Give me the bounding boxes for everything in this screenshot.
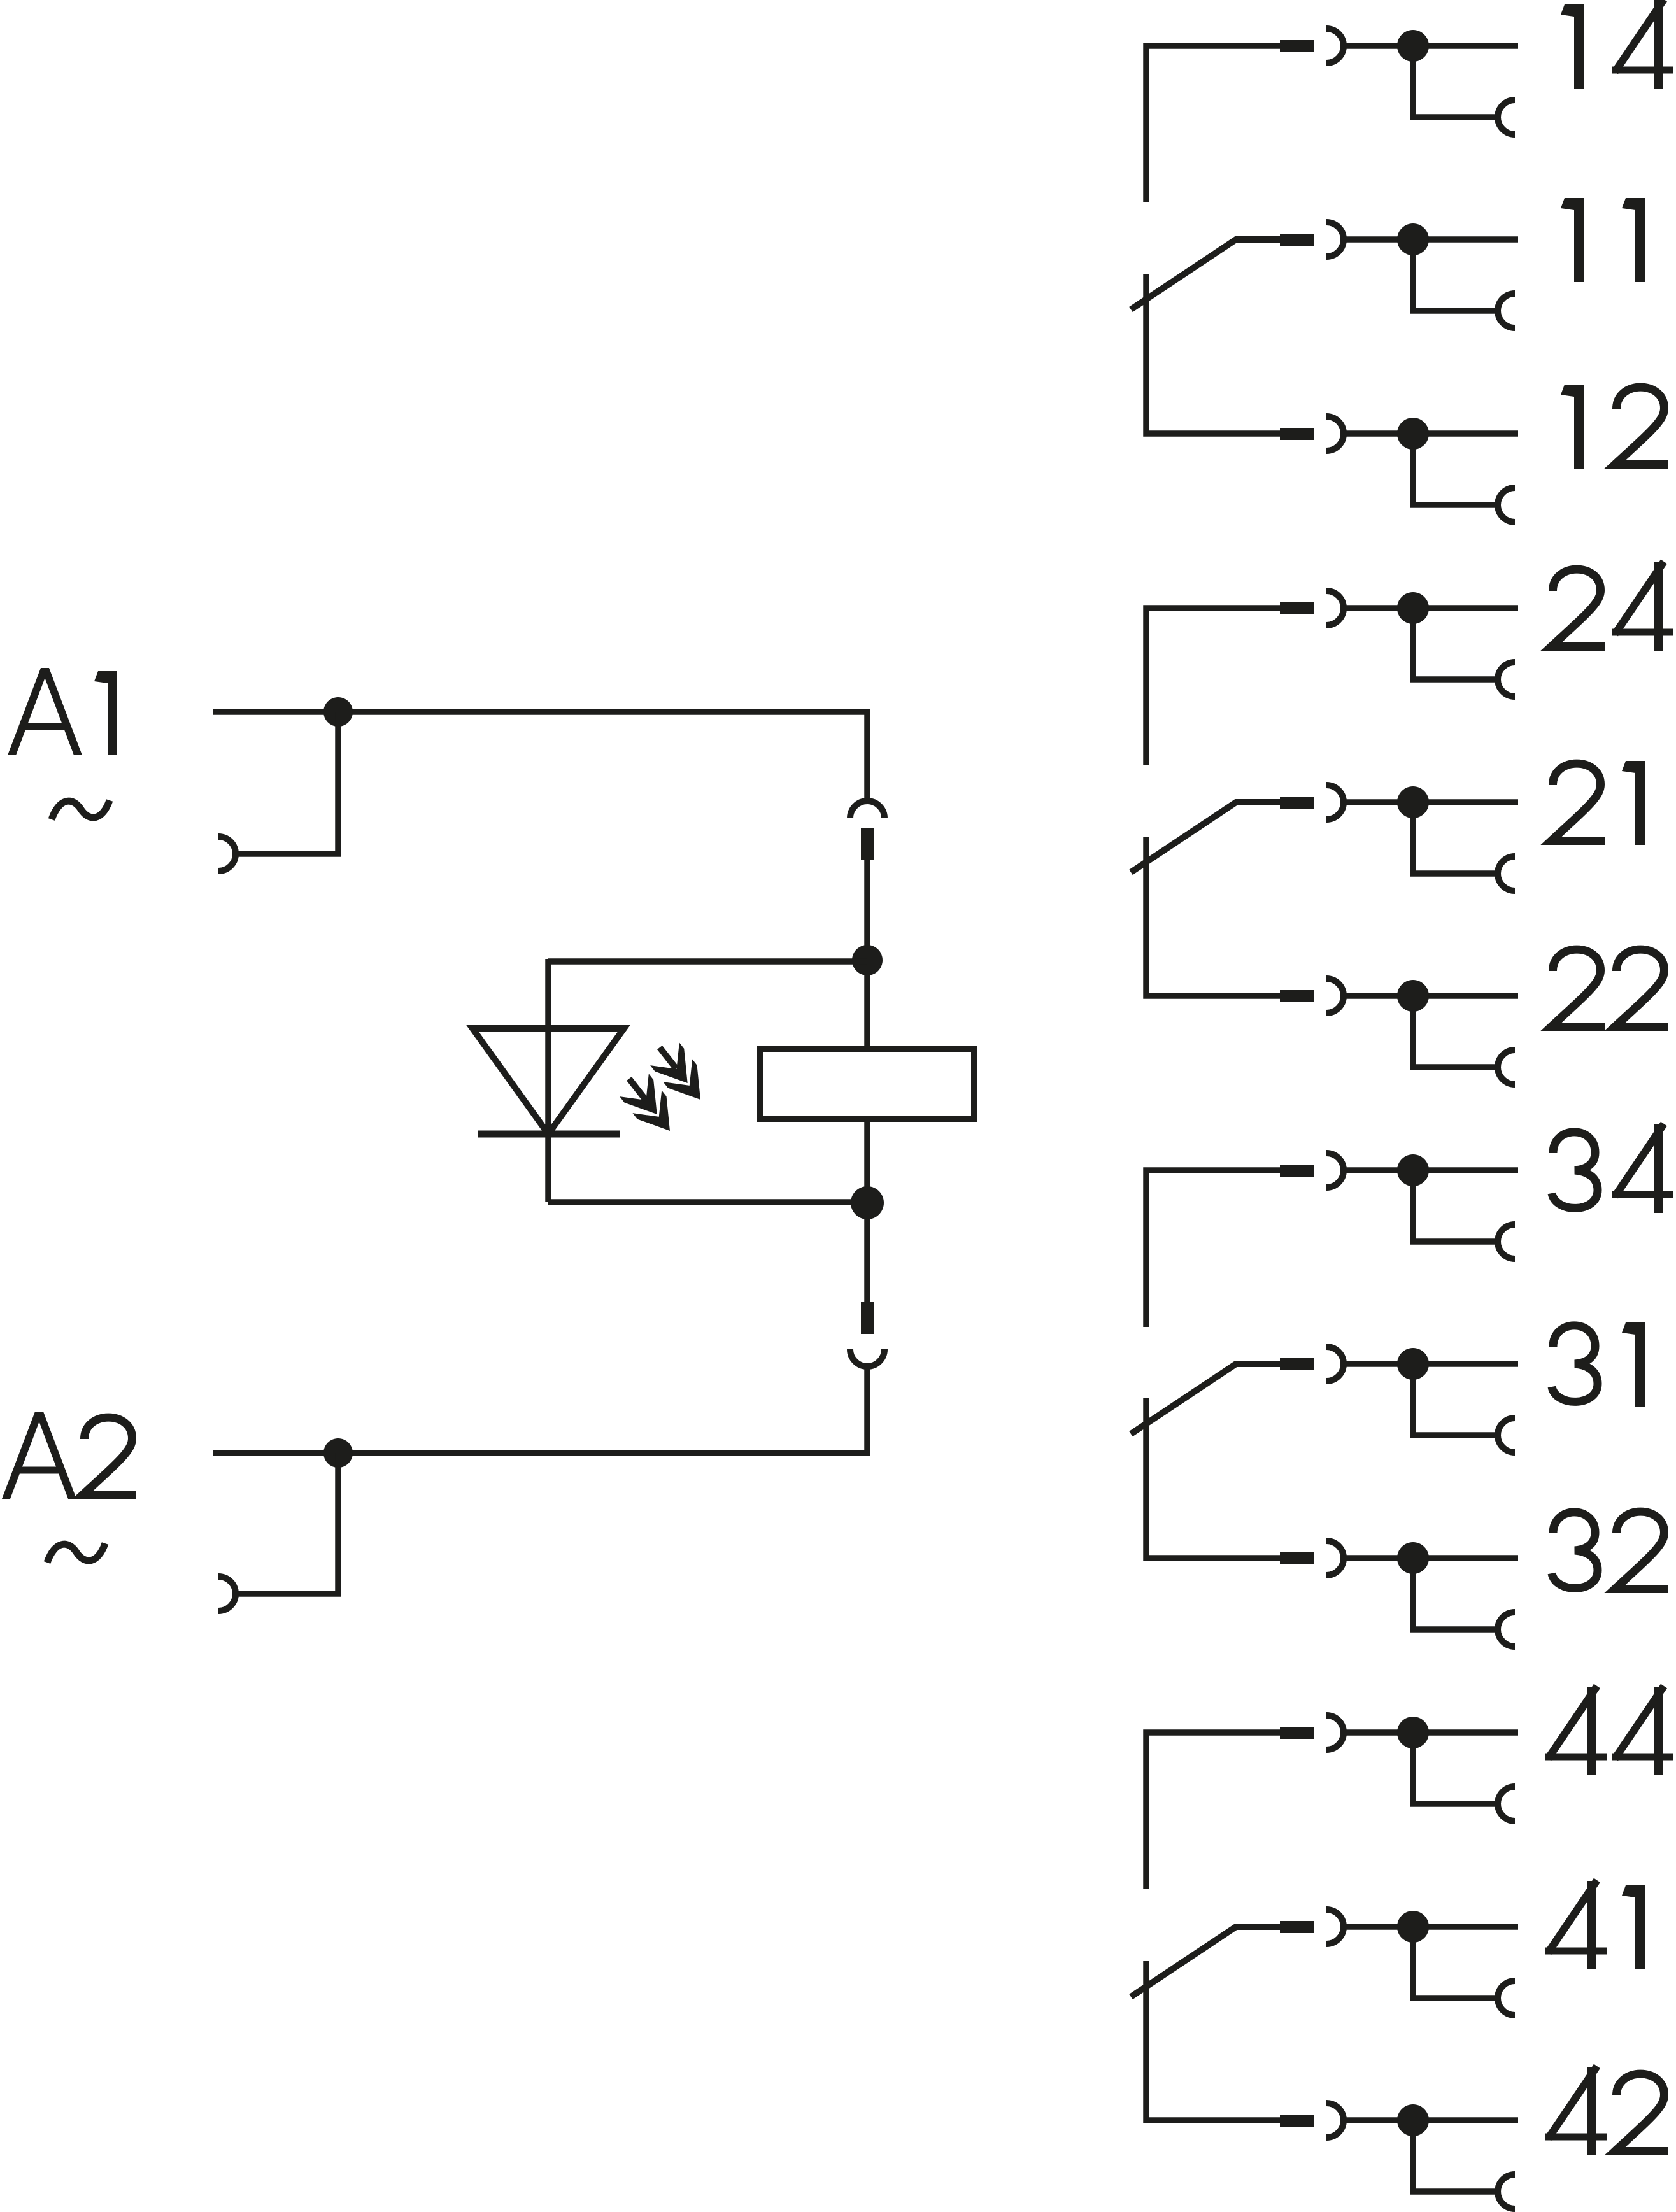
wire clamp stub 44 — [1413, 1733, 1499, 1804]
NC contact line 12 — [1146, 274, 1281, 434]
clamp socket 31 — [1498, 1418, 1515, 1452]
pin terminal 21 — [1280, 797, 1314, 809]
wire terminal 21 — [1342, 799, 1518, 805]
pin terminal 41 — [1280, 1921, 1314, 1933]
terminal label A1 — [8, 668, 117, 755]
wire clamp stub 32 — [1413, 1558, 1499, 1629]
wire terminal 12 — [1342, 430, 1518, 437]
NO contact line 24 — [1146, 608, 1281, 765]
junction terminal 12 — [1397, 418, 1429, 450]
socket terminal 34 — [1326, 1153, 1344, 1188]
wire clamp stub 11 — [1413, 239, 1499, 311]
terminal label 44 — [1545, 1686, 1673, 1775]
wire coil branch lower — [864, 1119, 870, 1302]
wire A2 feed from coil plug — [213, 1365, 867, 1453]
wire clamp stub 21 — [1413, 802, 1499, 874]
junction terminal 42 — [1397, 2104, 1429, 2136]
junction terminal 31 — [1397, 1348, 1429, 1380]
pin coil plug bottom — [861, 1302, 874, 1334]
terminal label 12 — [1561, 385, 1668, 469]
wire clamp stub 42 — [1413, 2120, 1499, 2192]
socket terminal 21 — [1326, 785, 1344, 819]
clamp socket 42 — [1498, 2174, 1515, 2209]
clamp socket 22 — [1498, 1050, 1515, 1084]
pin terminal 14 — [1280, 40, 1314, 52]
LED light arrow 2 — [614, 1067, 685, 1142]
AC symbol at A1 — [52, 800, 110, 819]
socket terminal 14 — [1326, 29, 1344, 63]
clamp socket 24 — [1498, 662, 1515, 697]
pin terminal 34 — [1280, 1165, 1314, 1177]
terminal label 11 — [1561, 198, 1645, 282]
socket terminal 24 — [1326, 591, 1344, 625]
wire terminal 42 — [1342, 2117, 1518, 2123]
wire clamp stub 24 — [1413, 608, 1499, 679]
wire LED branch top — [548, 958, 867, 965]
NO contact line 44 — [1146, 1733, 1281, 1889]
wire clamp stub 34 — [1413, 1170, 1499, 1242]
terminal label 42 — [1545, 2066, 1668, 2155]
junction terminal 32 — [1397, 1542, 1429, 1574]
junction terminal 41 — [1397, 1911, 1429, 1943]
pin terminal 44 — [1280, 1727, 1314, 1739]
wire coil branch upper — [864, 860, 870, 1049]
pin terminal 42 — [1280, 2115, 1314, 2127]
clamp socket 34 — [1498, 1224, 1515, 1259]
movable contact arm COM 31 — [1131, 1364, 1281, 1434]
clamp socket A1 — [218, 837, 236, 871]
junction A1 — [323, 697, 353, 727]
socket terminal 31 — [1326, 1347, 1344, 1381]
junction A2 — [323, 1438, 353, 1468]
wire clamp stub 41 — [1413, 1927, 1499, 1998]
pin coil plug top — [861, 828, 874, 860]
wire A2 clamp stub — [234, 1453, 338, 1594]
wire terminal 44 — [1342, 1729, 1518, 1736]
wire terminal 31 — [1342, 1361, 1518, 1367]
junction terminal 24 — [1397, 592, 1429, 624]
clamp socket 12 — [1498, 488, 1515, 522]
wire terminal 14 — [1342, 43, 1518, 49]
wire A1 feed to coil plug — [213, 712, 867, 802]
wire terminal 22 — [1342, 993, 1518, 999]
pin terminal 32 — [1280, 1552, 1314, 1564]
junction terminal 22 — [1397, 980, 1429, 1012]
pin terminal 31 — [1280, 1358, 1314, 1370]
wire terminal 41 — [1342, 1924, 1518, 1930]
socket terminal 41 — [1326, 1910, 1344, 1944]
LED indicator triangle — [472, 1028, 624, 1134]
junction coil bottom — [851, 1186, 884, 1219]
clamp socket A2 — [218, 1577, 236, 1611]
terminal label 14 — [1561, 0, 1673, 89]
terminal label 21 — [1551, 761, 1645, 845]
LED cathode bar — [478, 1131, 620, 1138]
NC contact line 42 — [1146, 1961, 1281, 2120]
AC symbol at A2 — [47, 1543, 105, 1563]
movable contact arm COM 21 — [1131, 802, 1281, 872]
terminal label 31 — [1552, 1322, 1645, 1407]
junction terminal 34 — [1397, 1154, 1429, 1186]
junction terminal 11 — [1397, 223, 1429, 255]
pin terminal 12 — [1280, 428, 1314, 440]
pin terminal 22 — [1280, 990, 1314, 1002]
socket terminal 32 — [1326, 1541, 1344, 1575]
wire LED branch vertical — [545, 959, 551, 1202]
junction terminal 44 — [1397, 1717, 1429, 1748]
terminal label 22 — [1551, 949, 1668, 1026]
clamp socket 21 — [1498, 856, 1515, 891]
wire A1 clamp stub — [234, 712, 338, 854]
wire clamp stub 12 — [1413, 434, 1499, 505]
wire terminal 11 — [1342, 236, 1518, 243]
pin terminal 11 — [1280, 234, 1314, 246]
terminal label 34 — [1552, 1124, 1673, 1213]
wire clamp stub 31 — [1413, 1364, 1499, 1435]
clamp socket 11 — [1498, 294, 1515, 328]
relay coil K1 — [760, 1049, 974, 1119]
socket terminal 22 — [1326, 979, 1344, 1013]
junction terminal 14 — [1397, 30, 1429, 62]
wire terminal 24 — [1342, 605, 1518, 611]
terminal label 24 — [1551, 562, 1673, 651]
clamp socket 44 — [1498, 1787, 1515, 1821]
wire terminal 34 — [1342, 1167, 1518, 1173]
pin terminal 24 — [1280, 602, 1314, 614]
socket coil plug bottom — [850, 1349, 884, 1366]
socket terminal 42 — [1326, 2103, 1344, 2138]
NC contact line 22 — [1146, 837, 1281, 996]
socket terminal 11 — [1326, 222, 1344, 257]
NO contact line 14 — [1146, 46, 1281, 202]
wire clamp stub 14 — [1413, 46, 1499, 117]
terminal label 32 — [1552, 1512, 1668, 1589]
socket terminal 12 — [1326, 416, 1344, 451]
clamp socket 32 — [1498, 1612, 1515, 1647]
clamp socket 41 — [1498, 1981, 1515, 2015]
movable contact arm COM 11 — [1131, 239, 1281, 309]
socket terminal 44 — [1326, 1715, 1344, 1750]
NC contact line 32 — [1146, 1398, 1281, 1558]
junction terminal 21 — [1397, 786, 1429, 818]
NO contact line 34 — [1146, 1170, 1281, 1327]
movable contact arm COM 41 — [1131, 1927, 1281, 1997]
wire LED branch bottom — [548, 1199, 867, 1205]
junction coil top — [852, 945, 883, 975]
terminal label 41 — [1545, 1880, 1645, 1969]
terminal label A2 — [2, 1412, 136, 1499]
wire terminal 32 — [1342, 1555, 1518, 1561]
socket coil plug top — [850, 801, 884, 818]
wire clamp stub 22 — [1413, 996, 1499, 1067]
clamp socket 14 — [1498, 100, 1515, 134]
LED light arrow 1 — [645, 1036, 715, 1111]
